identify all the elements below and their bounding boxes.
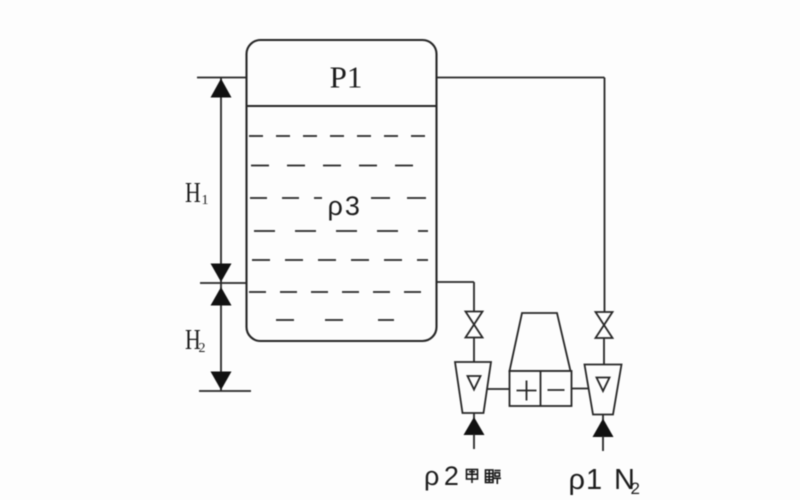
pipe tap drop (vertical) bbox=[473, 282, 475, 312]
minus terminal bbox=[548, 389, 565, 391]
svg-text:1: 1 bbox=[202, 193, 209, 208]
arrowhead H2 top (up) bbox=[211, 287, 232, 306]
valve V1 lower triangle bbox=[466, 325, 483, 338]
pipe tap from tank side (horizontal) bbox=[437, 281, 475, 283]
pipe below flow arrow F1 bbox=[473, 434, 475, 449]
dimension line H1 bbox=[220, 78, 222, 284]
dimension tick top bbox=[197, 77, 247, 79]
tank T1 vessel body bbox=[247, 40, 437, 341]
liquid level dashes row 6 bbox=[249, 291, 428, 293]
dimension tick middle bbox=[200, 282, 247, 284]
svg-text:H: H bbox=[185, 179, 201, 209]
liquid level dashes row 4 bbox=[254, 230, 428, 232]
rotameter F2 float bbox=[597, 378, 610, 392]
pipe below flow arrow F2 bbox=[602, 436, 604, 451]
rotameter F1 body bbox=[455, 362, 491, 413]
transmitter DP cell body bbox=[510, 371, 572, 406]
arrowhead H1 top (up) bbox=[211, 79, 232, 98]
svg-text:ρ3: ρ3 bbox=[328, 191, 362, 221]
dimension line H2 bbox=[220, 283, 222, 391]
liquid level dashes row 7 bbox=[276, 319, 394, 321]
醇 (approximate) bbox=[486, 470, 494, 483]
pipe valve V2 to rotameter bbox=[603, 338, 605, 365]
pipe N2 line (vertical) bbox=[604, 78, 606, 312]
pipe rotameter F1 outlet stub bbox=[473, 413, 475, 419]
label methanol (CJK, drawn) bbox=[467, 470, 502, 485]
甲 bbox=[467, 470, 478, 480]
tank head separation line bbox=[247, 105, 437, 107]
flow arrow into F2 (filled) bbox=[593, 419, 614, 438]
svg-text:ρ1: ρ1 bbox=[569, 464, 604, 496]
svg-text:2: 2 bbox=[199, 341, 206, 356]
valve V1 upper triangle bbox=[466, 312, 483, 325]
svg-text:2: 2 bbox=[631, 479, 640, 498]
rotameter F1 float bbox=[468, 376, 481, 390]
pipe rotameter F2 outlet stub bbox=[602, 415, 604, 421]
dimension tick bottom bbox=[199, 390, 251, 392]
pipe from tank top to N2 line (horizontal) bbox=[437, 77, 605, 79]
liquid level dashes row 5 bbox=[252, 259, 428, 261]
rotameter F2 body bbox=[585, 365, 622, 415]
svg-text:ρ2: ρ2 bbox=[424, 461, 463, 491]
plus terminal bbox=[517, 390, 537, 392]
valve V2 upper triangle bbox=[596, 312, 613, 325]
liquid level dashes row 1 bbox=[249, 135, 428, 137]
liquid level dashes row 2 bbox=[251, 165, 428, 167]
svg-text:P1: P1 bbox=[330, 60, 363, 95]
signal line F1 to transmitter bbox=[487, 388, 510, 390]
pipe valve V1 to rotameter bbox=[473, 338, 475, 363]
valve V2 lower triangle bbox=[596, 325, 613, 338]
transmitter DP cell cone bbox=[510, 313, 571, 371]
arrowhead H1 bottom (down) bbox=[211, 264, 232, 283]
transmitter body divider bbox=[540, 371, 542, 406]
signal line transmitter to F2 bbox=[572, 388, 589, 390]
flow arrow into F1 (filled) bbox=[464, 417, 485, 435]
liquid level dashes row 3 left of label bbox=[250, 197, 322, 199]
liquid level dashes row 3 right of label bbox=[371, 197, 428, 199]
arrowhead H2 bottom (down) bbox=[211, 372, 232, 391]
